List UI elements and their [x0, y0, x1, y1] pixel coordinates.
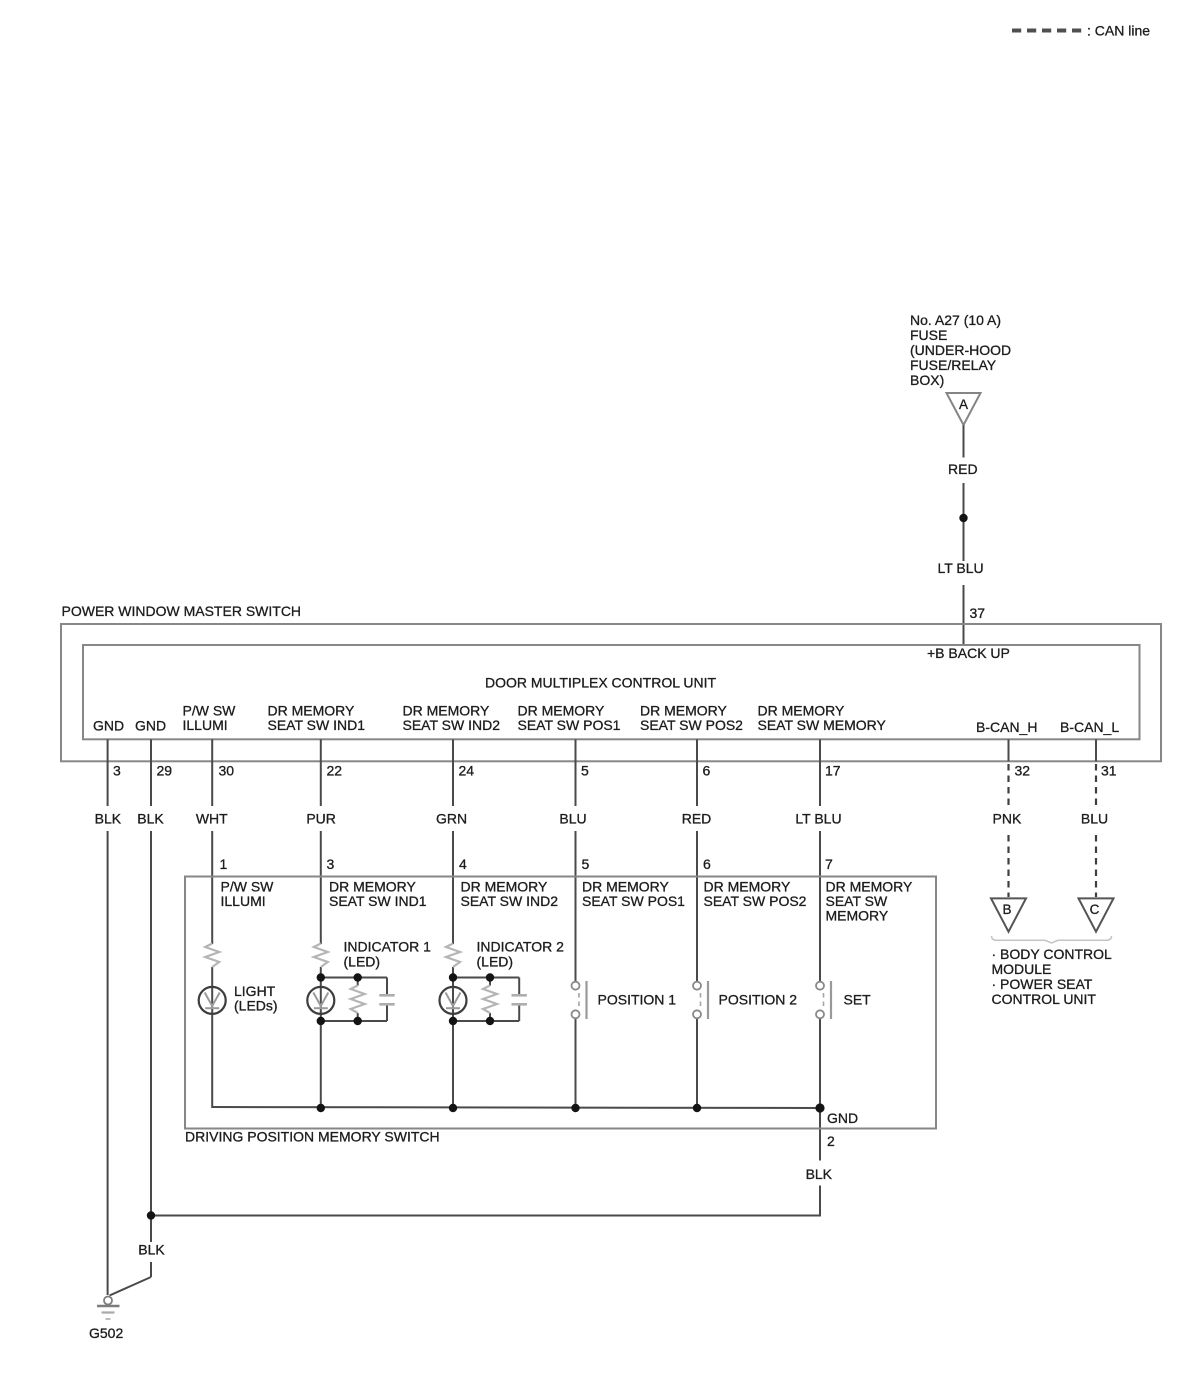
svg-text:A: A — [959, 397, 968, 412]
svg-text:6: 6 — [703, 856, 711, 872]
svg-text:1: 1 — [220, 856, 228, 872]
svg-text:7: 7 — [825, 856, 833, 872]
svg-text:37: 37 — [970, 605, 986, 621]
svg-text:SEAT SW POS1: SEAT SW POS1 — [518, 717, 621, 733]
svg-text:3: 3 — [113, 763, 121, 779]
svg-text:GND: GND — [93, 718, 124, 734]
svg-text:(LED): (LED) — [477, 954, 514, 970]
svg-text:SEAT SW IND2: SEAT SW IND2 — [403, 717, 501, 733]
svg-text:B-CAN_H: B-CAN_H — [976, 719, 1037, 735]
svg-text:SEAT SW IND1: SEAT SW IND1 — [268, 717, 366, 733]
svg-text:BLK: BLK — [138, 1242, 165, 1258]
svg-text:30: 30 — [219, 763, 235, 779]
svg-text:: CAN line: : CAN line — [1087, 23, 1150, 39]
svg-text:B-CAN_L: B-CAN_L — [1060, 719, 1119, 735]
svg-text:2: 2 — [827, 1133, 835, 1149]
svg-text:PNK: PNK — [993, 811, 1022, 827]
svg-text:POWER WINDOW MASTER SWITCH: POWER WINDOW MASTER SWITCH — [62, 603, 302, 619]
svg-text:BOX): BOX) — [910, 372, 944, 388]
svg-text:SEAT SW IND1: SEAT SW IND1 — [329, 893, 427, 909]
svg-text:3: 3 — [327, 856, 335, 872]
svg-text:BLU: BLU — [559, 811, 586, 827]
svg-text:BLK: BLK — [806, 1166, 833, 1182]
svg-text:RED: RED — [948, 461, 978, 477]
svg-text:SEAT SW MEMORY: SEAT SW MEMORY — [758, 717, 887, 733]
svg-text:SEAT SW POS2: SEAT SW POS2 — [640, 717, 743, 733]
svg-text:GRN: GRN — [436, 811, 467, 827]
svg-text:22: 22 — [327, 763, 343, 779]
svg-text:(UNDER-HOOD: (UNDER-HOOD — [910, 342, 1011, 358]
svg-text:FUSE/RELAY: FUSE/RELAY — [910, 357, 997, 373]
svg-text:4: 4 — [459, 856, 467, 872]
svg-text:DOOR MULTIPLEX CONTROL UNIT: DOOR MULTIPLEX CONTROL UNIT — [485, 675, 716, 691]
svg-text:ILLUMI: ILLUMI — [221, 893, 266, 909]
svg-text:32: 32 — [1015, 763, 1031, 779]
svg-text:SEAT SW POS1: SEAT SW POS1 — [582, 893, 685, 909]
svg-text:· BODY CONTROL: · BODY CONTROL — [992, 946, 1113, 962]
svg-text:PUR: PUR — [306, 811, 336, 827]
svg-text:INDICATOR 1: INDICATOR 1 — [344, 939, 432, 955]
svg-text:+B BACK UP: +B BACK UP — [927, 645, 1010, 661]
svg-text:B: B — [1002, 902, 1011, 917]
svg-text:24: 24 — [459, 763, 475, 779]
svg-text:LT BLU: LT BLU — [795, 811, 841, 827]
svg-text:DRIVING POSITION MEMORY SWITCH: DRIVING POSITION MEMORY SWITCH — [185, 1129, 440, 1145]
svg-text:BLK: BLK — [137, 811, 164, 827]
svg-text:INDICATOR 2: INDICATOR 2 — [477, 939, 565, 955]
svg-text:31: 31 — [1101, 763, 1117, 779]
svg-text:SET: SET — [844, 992, 872, 1008]
svg-text:17: 17 — [825, 763, 841, 779]
svg-text:SEAT SW IND2: SEAT SW IND2 — [461, 893, 559, 909]
svg-text:ILLUMI: ILLUMI — [183, 717, 228, 733]
svg-text:(LED): (LED) — [344, 954, 381, 970]
svg-text:WHT: WHT — [196, 811, 228, 827]
svg-text:POSITION 2: POSITION 2 — [719, 992, 798, 1008]
svg-text:GND: GND — [135, 718, 166, 734]
svg-text:BLU: BLU — [1081, 811, 1108, 827]
svg-text:BLK: BLK — [95, 811, 122, 827]
svg-text:5: 5 — [582, 856, 590, 872]
svg-text:GND: GND — [827, 1110, 858, 1126]
svg-text:MODULE: MODULE — [992, 961, 1052, 977]
svg-text:LT BLU: LT BLU — [938, 560, 984, 576]
svg-text:6: 6 — [703, 763, 711, 779]
svg-text:5: 5 — [581, 763, 589, 779]
svg-text:CONTROL UNIT: CONTROL UNIT — [992, 991, 1097, 1007]
svg-text:POSITION 1: POSITION 1 — [598, 992, 677, 1008]
svg-text:(LEDs): (LEDs) — [234, 998, 278, 1014]
svg-text:RED: RED — [682, 811, 712, 827]
svg-text:G502: G502 — [89, 1325, 123, 1341]
svg-text:FUSE: FUSE — [910, 327, 947, 343]
svg-text:No. A27 (10 A): No. A27 (10 A) — [910, 312, 1001, 328]
svg-text:29: 29 — [157, 763, 173, 779]
svg-text:· POWER SEAT: · POWER SEAT — [992, 976, 1093, 992]
svg-text:C: C — [1090, 902, 1100, 917]
svg-text:MEMORY: MEMORY — [826, 908, 889, 924]
svg-text:SEAT SW POS2: SEAT SW POS2 — [704, 893, 807, 909]
